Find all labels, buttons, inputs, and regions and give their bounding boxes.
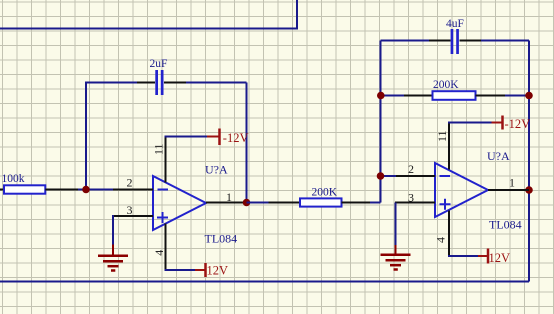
wire input2 to pin2b [381, 175, 397, 177]
svg-text:11: 11 [435, 130, 449, 142]
resistor R2 200K [269, 186, 371, 206]
op-amp U?A (stage 1) TL084 [153, 163, 237, 246]
wire input node stage1 [78, 189, 113, 191]
op-amp U?A (stage 2) TL084 [435, 149, 522, 232]
node output1 junction [243, 199, 251, 207]
svg-text:-12V: -12V [505, 117, 531, 131]
resistor R3 200K feedback [404, 79, 505, 100]
node feedback2 left junction [377, 92, 385, 100]
svg-text:3: 3 [408, 191, 414, 205]
ground (stage1) [98, 245, 128, 271]
svg-text:12V: 12V [489, 251, 511, 265]
power -12V (stage1) [207, 129, 249, 146]
wire R2 to stage2 input [370, 202, 381, 204]
pin 11 op-amp2 [448, 123, 450, 170]
capacitor C1 2uF [137, 58, 186, 95]
wire feedback1 left vertical [85, 83, 87, 191]
svg-text:4: 4 [152, 250, 166, 256]
wire feedback1 top left [85, 82, 137, 84]
power 12V (stage2) [478, 249, 510, 265]
pin 1 op-amp2 [488, 189, 529, 191]
pin 1 op-amp1 [206, 202, 247, 204]
svg-text:TL084: TL084 [489, 218, 522, 232]
pin 3 op-amp1 [113, 215, 153, 217]
wire pin11a to -12V [166, 137, 208, 138]
wire pin3b to ground [395, 203, 397, 246]
wire top net [0, 0, 297, 29]
wire right vertical (output2 to bottom) [528, 41, 530, 282]
wire feedback2 mid right [505, 95, 529, 97]
ground (stage2) [381, 245, 411, 270]
svg-text:TL084: TL084 [205, 232, 238, 246]
svg-text:U?A: U?A [205, 163, 228, 177]
wire bottom net [0, 281, 529, 283]
svg-text:200K: 200K [312, 186, 338, 198]
wire pin11b to -12V [449, 123, 492, 124]
svg-text:U?A: U?A [487, 149, 510, 163]
node output2 junction [525, 186, 533, 194]
pin 4 op-amp1 [165, 224, 167, 271]
wire feedback1 top right [186, 82, 247, 84]
wire pin3a to ground [112, 215, 114, 245]
pin 4 op-amp2 [448, 211, 450, 257]
resistor R1 100k [0, 173, 78, 194]
svg-text:2: 2 [408, 162, 414, 176]
wire output1 to R2 [247, 202, 269, 204]
wire stage2 input vertical [380, 41, 382, 203]
wire feedback2 top right [481, 40, 529, 42]
capacitor C2 4uF [429, 18, 481, 54]
pin 11 op-amp1 [165, 137, 167, 183]
node input2 junction [377, 172, 385, 180]
svg-text:1: 1 [509, 176, 515, 190]
svg-text:4: 4 [434, 237, 448, 243]
pin 2 op-amp2 [396, 175, 435, 177]
pin 3 op-amp2 [395, 202, 435, 204]
pin 2 op-amp1 [113, 189, 153, 191]
svg-text:2: 2 [127, 176, 133, 190]
svg-text:11: 11 [151, 143, 165, 155]
svg-text:100k: 100k [2, 173, 25, 185]
svg-text:-12V: -12V [223, 131, 249, 145]
wire feedback1 right vertical [246, 83, 248, 203]
power -12V (stage2) [492, 116, 531, 131]
wire feedback2 mid left (200K row) [381, 95, 405, 97]
node feedback2 right junction [525, 92, 533, 100]
svg-text:3: 3 [127, 203, 133, 217]
svg-text:2uF: 2uF [150, 58, 168, 70]
node input1 junction [82, 186, 90, 194]
wire pin4a to 12V [166, 269, 196, 270]
svg-text:12V: 12V [207, 264, 229, 278]
svg-text:200K: 200K [433, 79, 459, 91]
power 12V (stage1) [195, 263, 228, 278]
svg-text:4uF: 4uF [446, 18, 464, 30]
svg-text:1: 1 [226, 190, 232, 204]
wire pin4b to 12V [449, 255, 478, 256]
wire feedback2 top left (4uF row) [381, 40, 430, 42]
